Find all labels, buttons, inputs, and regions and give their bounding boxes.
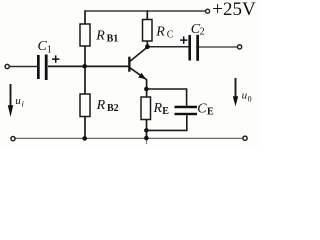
svg-text:C: C bbox=[167, 30, 174, 41]
svg-text:i: i bbox=[22, 100, 24, 109]
svg-text:R: R bbox=[96, 98, 106, 113]
svg-text:E: E bbox=[162, 106, 169, 117]
svg-text:R: R bbox=[155, 25, 165, 40]
svg-text:u: u bbox=[15, 95, 21, 107]
svg-text:+25V: +25V bbox=[212, 0, 256, 20]
svg-text:C: C bbox=[197, 102, 207, 117]
svg-text:B1: B1 bbox=[107, 33, 119, 44]
svg-text:0: 0 bbox=[248, 94, 252, 103]
svg-text:2: 2 bbox=[200, 27, 205, 38]
svg-text:R: R bbox=[95, 29, 105, 44]
svg-text:B2: B2 bbox=[107, 103, 119, 114]
svg-text:R: R bbox=[153, 101, 163, 116]
svg-text:E: E bbox=[207, 106, 214, 117]
svg-text:1: 1 bbox=[47, 45, 52, 56]
